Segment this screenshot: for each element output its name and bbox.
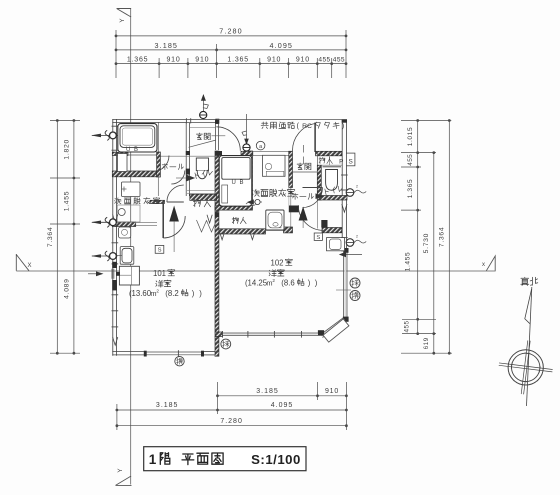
svg-text:P: P (339, 159, 343, 166)
svg-text:(8.6: (8.6 (281, 278, 294, 287)
svg-text:1.015: 1.015 (407, 127, 414, 147)
svg-text:2: 2 (272, 278, 275, 283)
svg-text:): ) (315, 278, 318, 287)
svg-text:x: x (482, 262, 485, 268)
svg-text:U B: U B (231, 180, 244, 186)
svg-text:Y: Y (117, 468, 124, 472)
svg-text:1.820: 1.820 (64, 139, 71, 160)
svg-text:4.089: 4.089 (64, 278, 71, 299)
svg-text:910: 910 (296, 57, 310, 64)
svg-text:7.364: 7.364 (47, 227, 54, 248)
svg-text:455: 455 (333, 57, 345, 64)
svg-text:3.185: 3.185 (156, 402, 179, 409)
svg-text:): ) (192, 289, 195, 298)
svg-text:(13.60: (13.60 (129, 289, 152, 298)
svg-text:(14.25: (14.25 (245, 278, 268, 287)
svg-text:455: 455 (404, 321, 411, 333)
svg-text:1.455: 1.455 (64, 191, 71, 212)
svg-text:S: S (158, 248, 162, 254)
svg-text:1.365: 1.365 (227, 57, 249, 64)
svg-text:4.095: 4.095 (270, 41, 294, 50)
svg-text:(8.2: (8.2 (165, 289, 178, 298)
svg-text:455: 455 (318, 57, 330, 64)
svg-text:910: 910 (267, 57, 281, 64)
svg-text:1.365: 1.365 (127, 57, 149, 64)
svg-text:910: 910 (325, 388, 339, 395)
svg-text:4.095: 4.095 (271, 402, 294, 409)
svg-text:5.730: 5.730 (423, 233, 430, 254)
svg-text:619: 619 (423, 337, 430, 349)
svg-text:910: 910 (166, 57, 180, 64)
svg-text:S: S (316, 235, 320, 241)
svg-text:102: 102 (270, 259, 283, 268)
svg-text:S: S (348, 159, 352, 166)
svg-text:1.455: 1.455 (405, 252, 412, 272)
svg-text:3.185: 3.185 (256, 388, 279, 395)
svg-text:3.185: 3.185 (155, 41, 179, 50)
svg-text:7.280: 7.280 (220, 418, 243, 425)
svg-text:U B: U B (126, 147, 139, 153)
svg-text:Y: Y (119, 18, 126, 22)
svg-text:X: X (27, 263, 31, 269)
svg-text:1.365: 1.365 (407, 179, 414, 199)
svg-text:1: 1 (149, 452, 157, 467)
svg-text:): ) (308, 278, 311, 287)
svg-text:101: 101 (153, 269, 166, 278)
svg-text:S:1/100: S:1/100 (251, 452, 301, 467)
svg-text:455: 455 (407, 154, 414, 166)
svg-text:RC: RC (302, 123, 312, 130)
svg-text:7.364: 7.364 (439, 227, 446, 248)
svg-text:910: 910 (195, 57, 209, 64)
svg-text:2: 2 (156, 289, 159, 294)
svg-text:7.280: 7.280 (219, 27, 243, 36)
svg-text:): ) (199, 289, 202, 298)
